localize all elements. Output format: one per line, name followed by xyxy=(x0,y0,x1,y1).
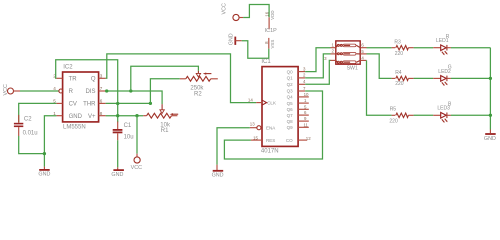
pin 13 ENA stub with inversion circle xyxy=(250,127,257,129)
svg-text:GND: GND xyxy=(38,172,50,178)
svg-text:GND: GND xyxy=(111,172,123,178)
pin 5 Q6 stub xyxy=(298,108,309,110)
pin 11 Q9 stub xyxy=(298,126,309,128)
svg-text:V+: V+ xyxy=(88,114,96,120)
svg-text:R5: R5 xyxy=(390,107,397,113)
pin 7 DIS stub xyxy=(99,90,106,92)
svg-text:CO: CO xyxy=(286,138,293,143)
svg-text:Q9: Q9 xyxy=(287,125,294,130)
svg-text:VCC: VCC xyxy=(3,84,9,95)
svg-text:ENA: ENA xyxy=(266,126,275,131)
wire GND rail (right) xyxy=(489,48,491,130)
svg-text:VCC: VCC xyxy=(131,165,142,171)
SW1 pin stubs left 1,2,3 xyxy=(331,47,336,49)
node DIS pin xyxy=(105,89,108,92)
switch element row2 xyxy=(336,53,360,56)
wire VCC drop xyxy=(136,116,138,154)
wire VCC to R pin of IC2 xyxy=(20,90,59,92)
svg-text:Q0: Q0 xyxy=(287,69,294,74)
wire R5 to LED3 xyxy=(414,114,434,116)
svg-text:CV: CV xyxy=(69,102,77,108)
svg-text:GND: GND xyxy=(69,114,83,120)
svg-text:Q: Q xyxy=(91,77,96,83)
pin 4 R stub with inversion circle xyxy=(59,89,63,93)
svg-text:TR: TR xyxy=(69,77,78,83)
svg-text:R3: R3 xyxy=(394,40,401,46)
wire VCC to VDD pin 16 xyxy=(243,5,269,18)
wire R3 to LED1 xyxy=(414,47,434,49)
ground symbol (IC2) xyxy=(38,167,50,178)
pin 5 CV stub xyxy=(56,102,62,104)
svg-text:C2: C2 xyxy=(24,116,32,122)
svg-text:IC1P: IC1P xyxy=(265,28,277,34)
svg-text:Q5: Q5 xyxy=(287,101,294,106)
svg-text:6: 6 xyxy=(100,99,103,104)
svg-text:VSS: VSS xyxy=(270,40,275,49)
svg-text:Q6: Q6 xyxy=(287,107,294,112)
power pin 16 VDD of IC1P xyxy=(264,10,275,29)
svg-text:VCC: VCC xyxy=(222,3,228,14)
supply symbol VCC (below C1) xyxy=(131,154,142,172)
pin 1 GND stub xyxy=(56,115,62,117)
capacitor C1 (polarized) xyxy=(113,122,134,141)
svg-text:VDD: VDD xyxy=(270,10,275,19)
node THR/R2 vertical xyxy=(149,102,152,105)
svg-text:GND: GND xyxy=(212,173,224,179)
trimmer resistor R1 10k xyxy=(143,104,178,134)
pin 1 Q5 stub xyxy=(298,102,309,104)
svg-text:0.01u: 0.01u xyxy=(23,131,38,137)
pin 6 Q7 stub xyxy=(298,114,309,116)
pin 6 THR stub xyxy=(99,102,106,104)
wire ENA to ground xyxy=(217,128,250,165)
pin 3 Q stub xyxy=(99,77,106,79)
svg-text:4: 4 xyxy=(53,86,56,91)
switch element row1 xyxy=(336,44,360,48)
node V+/VCC drop xyxy=(135,114,138,117)
svg-text:Q2: Q2 xyxy=(287,82,294,87)
node LED2/GND rail xyxy=(489,77,492,80)
wire LED1 to GND rail xyxy=(451,47,491,49)
svg-text:7: 7 xyxy=(100,86,103,91)
svg-text:10u: 10u xyxy=(124,134,134,140)
svg-text:G: G xyxy=(448,65,452,71)
pin 7 Q3 stub xyxy=(298,90,305,92)
svg-text:SW1: SW1 xyxy=(347,65,358,71)
svg-text:14: 14 xyxy=(248,97,253,102)
svg-text:8: 8 xyxy=(100,111,103,116)
svg-text:GND: GND xyxy=(228,33,234,45)
pin 15 RES stub xyxy=(251,139,262,141)
pin 3 Q0 stub xyxy=(298,71,305,73)
svg-text:R2: R2 xyxy=(194,91,202,97)
svg-text:RES: RES xyxy=(266,138,275,143)
wire IC2 GND pin down xyxy=(44,116,56,167)
svg-text:CLK: CLK xyxy=(267,100,276,105)
resistor R4 220 xyxy=(392,70,414,87)
node DIS/R2-wiper-line xyxy=(129,89,132,92)
svg-text:R: R xyxy=(69,89,74,95)
wire Q2 to SW1 pin3 xyxy=(305,60,330,84)
node V+/C1 xyxy=(116,114,119,117)
svg-text:DIS: DIS xyxy=(85,89,95,95)
pin 10 Q4 stub xyxy=(298,96,309,98)
wire R4 to LED2 xyxy=(414,77,434,79)
svg-text:Q7: Q7 xyxy=(287,113,294,118)
svg-text:4017N: 4017N xyxy=(261,149,279,155)
svg-text:R1: R1 xyxy=(161,128,169,134)
pin 12 CO stub xyxy=(298,139,307,141)
wire V+ row to R1 xyxy=(106,115,144,117)
wire THR up to R2 left xyxy=(150,79,179,104)
node THR/TR vertical xyxy=(116,102,119,105)
wire R2 wiper line to DIS xyxy=(131,66,199,91)
svg-text:220: 220 xyxy=(395,81,404,87)
wire C2 bottom to ground junction xyxy=(19,136,45,154)
wire Q output to CLK of IC1 xyxy=(106,54,257,103)
svg-text:R: R xyxy=(446,34,450,40)
svg-text:15: 15 xyxy=(253,135,258,140)
ground symbol (C1) xyxy=(111,167,123,178)
wire Q0 to SW1 pin1 xyxy=(305,48,330,72)
wire THR row xyxy=(106,102,151,104)
wire LED3 to GND rail xyxy=(451,114,491,116)
capacitor C2 xyxy=(14,115,38,137)
switch SW1 box xyxy=(336,41,360,72)
counter IC1 box 4017N xyxy=(261,59,298,155)
SW1 pin stubs right 6,5,4 xyxy=(360,47,366,49)
wire Q1 to SW1 pin2 xyxy=(305,54,330,78)
wire SW1 pin5 to R4 xyxy=(367,54,392,79)
supply symbol VCC (IC1P) xyxy=(222,3,244,21)
power pin 8 VSS of IC1P xyxy=(264,28,277,49)
svg-text:Q4: Q4 xyxy=(287,95,294,100)
svg-text:IC2: IC2 xyxy=(63,65,73,71)
wire RES to Q3 xyxy=(224,91,322,159)
timer IC2 box LM555N xyxy=(63,65,99,131)
svg-text:Q1: Q1 xyxy=(287,76,294,81)
LED2 xyxy=(433,65,452,86)
wire C1 bottom to ground xyxy=(117,140,119,167)
svg-text:LM555N: LM555N xyxy=(63,124,86,130)
supply symbol VCC (left) xyxy=(3,84,20,95)
svg-text:R4: R4 xyxy=(395,70,402,76)
svg-text:11: 11 xyxy=(303,122,308,127)
wire TR loop over IC2 down to THR node xyxy=(56,60,118,122)
pin 14 CLK stub xyxy=(256,102,262,104)
svg-text:16: 16 xyxy=(264,11,269,16)
svg-text:C1: C1 xyxy=(124,123,132,129)
wire SW1 pin6 to R3 xyxy=(367,47,392,49)
ground symbol (right rail) xyxy=(484,130,496,142)
LED3 xyxy=(433,102,452,123)
svg-text:10: 10 xyxy=(304,92,309,97)
svg-text:Q3: Q3 xyxy=(287,89,294,94)
ground symbol (IC1P) xyxy=(228,33,241,45)
node junction C2/GND xyxy=(43,152,46,155)
pin 4 Q2 stub xyxy=(298,83,305,85)
trimmer resistor R2 250k xyxy=(180,71,218,98)
svg-text:3: 3 xyxy=(100,74,103,79)
wire CV to C2 xyxy=(19,103,57,122)
switch element row3 xyxy=(336,60,360,63)
wire GND to VSS pin 8 xyxy=(242,41,269,59)
svg-text:GND: GND xyxy=(484,136,496,142)
LED1 xyxy=(433,34,451,55)
pin 9 Q8 stub xyxy=(298,120,309,122)
node LED3/GND rail xyxy=(489,114,492,117)
pin 2 Q1 stub xyxy=(298,77,305,79)
svg-text:12: 12 xyxy=(306,136,311,141)
wire DIS row to R1 wiper xyxy=(106,91,163,104)
resistor R5 220 xyxy=(389,107,413,125)
wire LED2 to GND rail xyxy=(451,77,491,79)
svg-text:13: 13 xyxy=(250,122,255,127)
svg-text:IC1: IC1 xyxy=(261,59,271,65)
svg-text:220: 220 xyxy=(389,119,398,125)
ground symbol (ENA) xyxy=(212,165,224,179)
resistor R3 220 xyxy=(392,40,414,58)
pin 2 TR stub xyxy=(56,77,62,79)
wire SW1 pin4 to R5 xyxy=(367,60,392,115)
svg-text:THR: THR xyxy=(83,102,96,108)
pin 8 V+ stub xyxy=(99,115,106,117)
svg-text:220: 220 xyxy=(395,51,404,57)
svg-text:Q8: Q8 xyxy=(287,119,294,124)
